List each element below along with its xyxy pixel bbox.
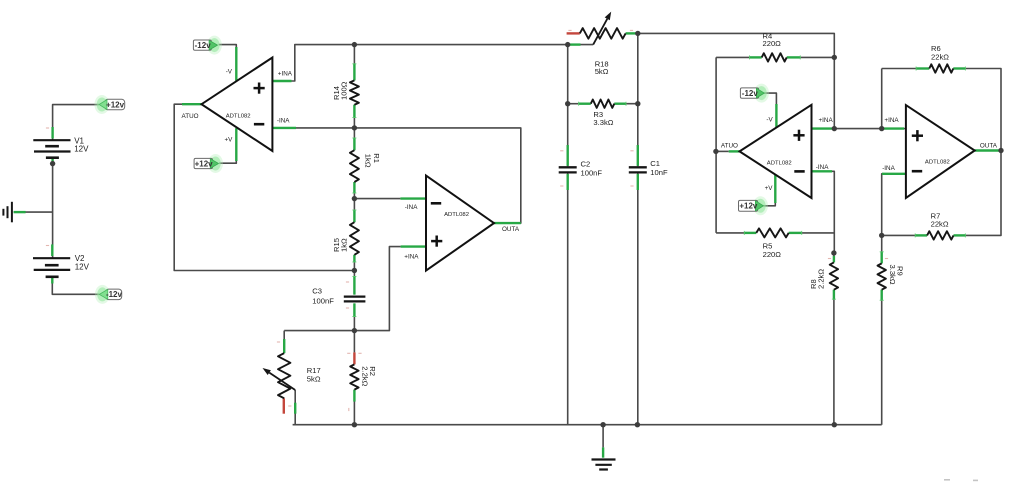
svg-text:-INA: -INA bbox=[816, 164, 829, 171]
svg-text:-12v: -12v bbox=[195, 41, 212, 50]
svg-text:220Ω: 220Ω bbox=[763, 250, 782, 259]
svg-text:2.2kΩ: 2.2kΩ bbox=[817, 269, 826, 289]
svg-text:ADTL082: ADTL082 bbox=[226, 113, 251, 119]
svg-text:10nF: 10nF bbox=[650, 168, 668, 177]
svg-text:+INA: +INA bbox=[404, 253, 419, 260]
svg-text:C2: C2 bbox=[581, 160, 591, 169]
svg-text:-INA: -INA bbox=[277, 118, 290, 125]
svg-text:+12v: +12v bbox=[739, 202, 758, 211]
svg-text:OUTA: OUTA bbox=[980, 142, 998, 149]
svg-text:+12v: +12v bbox=[106, 100, 125, 109]
svg-text:ADTL082: ADTL082 bbox=[767, 160, 792, 166]
svg-text:22kΩ: 22kΩ bbox=[931, 220, 949, 229]
svg-text:-12v: -12v bbox=[742, 89, 759, 98]
svg-text:+INA: +INA bbox=[819, 117, 834, 124]
svg-text:ADTL082: ADTL082 bbox=[925, 160, 950, 166]
svg-text:100nF: 100nF bbox=[581, 169, 603, 178]
svg-text:5kΩ: 5kΩ bbox=[595, 67, 609, 76]
svg-text:+V: +V bbox=[765, 185, 774, 192]
svg-text:+INA: +INA bbox=[278, 70, 293, 77]
svg-text:100Ω: 100Ω bbox=[339, 81, 348, 100]
svg-text:22kΩ: 22kΩ bbox=[931, 53, 949, 62]
svg-text:-V: -V bbox=[226, 69, 233, 76]
svg-text:-12v: -12v bbox=[106, 290, 123, 299]
svg-text:3.3kΩ: 3.3kΩ bbox=[593, 118, 613, 127]
svg-text:-INA: -INA bbox=[405, 204, 418, 211]
svg-text:ATUO: ATUO bbox=[721, 143, 738, 150]
svg-text:3.3kΩ: 3.3kΩ bbox=[888, 265, 897, 285]
svg-text:1kΩ: 1kΩ bbox=[364, 154, 373, 168]
svg-text:ATUO: ATUO bbox=[182, 113, 199, 120]
svg-text:C1: C1 bbox=[650, 159, 660, 168]
svg-text:100nF: 100nF bbox=[312, 297, 334, 306]
svg-text:+12v: +12v bbox=[195, 159, 214, 168]
svg-text:12V: 12V bbox=[74, 144, 89, 153]
svg-text:+V: +V bbox=[225, 136, 234, 143]
svg-text:+INA: +INA bbox=[884, 117, 899, 124]
svg-text:12V: 12V bbox=[75, 262, 90, 271]
svg-text:C3: C3 bbox=[312, 287, 322, 296]
svg-text:OUTA: OUTA bbox=[502, 226, 520, 233]
svg-text:2.2kΩ: 2.2kΩ bbox=[361, 366, 370, 386]
svg-text:5kΩ: 5kΩ bbox=[307, 375, 321, 384]
svg-text:ADTL082: ADTL082 bbox=[444, 212, 469, 218]
svg-text:-INA: -INA bbox=[882, 165, 895, 172]
svg-text:220Ω: 220Ω bbox=[763, 39, 782, 48]
svg-text:-V: -V bbox=[766, 117, 773, 124]
svg-text:1kΩ: 1kΩ bbox=[339, 238, 348, 252]
